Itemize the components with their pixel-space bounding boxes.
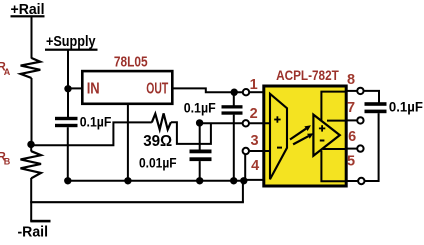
- node C3 on bus: [230, 177, 237, 184]
- node C2 on bus: [196, 177, 203, 184]
- pin 4: [251, 158, 259, 174]
- LED arrows: [290, 125, 314, 144]
- wire pin4: [244, 179, 265, 181]
- node bus right junction: [240, 177, 247, 184]
- svg-text:IN: IN: [87, 81, 100, 98]
- svg-text:OUT: OUT: [146, 81, 168, 98]
- capacitor C3 0.1uF: [184, 92, 243, 115]
- wire bus to -Rail: [242, 181, 244, 202]
- svg-text:2: 2: [250, 106, 258, 122]
- svg-text:6: 6: [348, 129, 356, 145]
- pin 3: [243, 133, 270, 154]
- wire +Supply down: [67, 50, 69, 89]
- node supply junction: [64, 85, 71, 92]
- resistor RA: [0, 58, 40, 78]
- wire +Rail to RA: [31, 16, 33, 59]
- wire to regulator IN: [68, 87, 83, 89]
- ground bus GND1: [68, 180, 245, 182]
- +Rail terminal: [11, 1, 45, 18]
- node divider tap: [27, 141, 34, 148]
- regulator U1 78L05: [82, 55, 172, 104]
- svg-text:A: A: [4, 67, 11, 77]
- wire RB to -Rail line: [30, 178, 32, 222]
- pin 8: [347, 72, 364, 94]
- wire regulator ground: [127, 104, 129, 181]
- svg-text:0.1µF: 0.1µF: [80, 113, 112, 129]
- -Rail terminal: [18, 220, 51, 241]
- pin 2: [243, 106, 270, 127]
- capacitor C1 0.1uF: [55, 89, 112, 129]
- pin 1: [243, 77, 265, 96]
- pin 6: [347, 129, 364, 152]
- wire C4 to pin5: [365, 113, 379, 181]
- svg-text:0.1µF: 0.1µF: [184, 100, 216, 116]
- node VDD1: [231, 89, 238, 96]
- internal output wires: [327, 120, 347, 122]
- resistor R1 39ohm: [143, 113, 172, 150]
- node bus left end: [64, 177, 71, 184]
- svg-text:0.1µF: 0.1µF: [389, 98, 423, 114]
- svg-text:-Rail: -Rail: [18, 225, 49, 241]
- svg-text:5: 5: [347, 154, 355, 170]
- pin 5: [347, 154, 365, 185]
- svg-text:ACPL-782T: ACPL-782T: [276, 68, 339, 84]
- internal VDD2 wire: [321, 92, 347, 121]
- capacitor C2 0.01uF: [139, 123, 212, 171]
- wire OUT to pin 1: [172, 88, 242, 92]
- pin 7: [347, 100, 364, 123]
- -Rail bus line: [30, 201, 244, 203]
- +Supply terminal: [45, 33, 98, 51]
- capacitor C4 0.1uF: [365, 98, 424, 114]
- wire VIN+ to pin 2: [200, 122, 243, 124]
- svg-text:0.01µF: 0.01µF: [139, 155, 177, 171]
- modulator amplifier inside U2: [270, 94, 287, 179]
- internal GND2 wire: [321, 151, 347, 182]
- svg-text:+Supply: +Supply: [46, 33, 96, 50]
- wire pin8 to C4: [364, 91, 379, 103]
- wire RA to tap junction: [31, 78, 33, 146]
- wire C2 to ground bus: [199, 161, 201, 181]
- output amplifier inside U2: [313, 115, 339, 156]
- svg-text:B: B: [4, 157, 11, 167]
- wire 39 ohm to pin 2 line: [171, 122, 211, 144]
- svg-text:39Ω: 39Ω: [143, 133, 172, 150]
- svg-text:1: 1: [250, 77, 258, 93]
- svg-text:8: 8: [347, 72, 355, 88]
- resistor RB: [0, 151, 41, 178]
- wire C1 to ground bus: [67, 127, 69, 181]
- node VIN+: [196, 119, 203, 126]
- node regulator ground on bus: [124, 177, 131, 184]
- optocoupler U2 ACPL-782T body: [264, 68, 346, 186]
- svg-text:4: 4: [251, 158, 259, 174]
- wire pin3 to bus: [244, 155, 246, 182]
- svg-text:7: 7: [347, 100, 355, 116]
- wire tap to 39 ohm: [31, 122, 152, 145]
- svg-text:3: 3: [250, 133, 258, 149]
- svg-text:78L05: 78L05: [114, 55, 148, 71]
- wire tap to RB: [30, 144, 32, 152]
- wire C3 to ground bus: [233, 115, 235, 181]
